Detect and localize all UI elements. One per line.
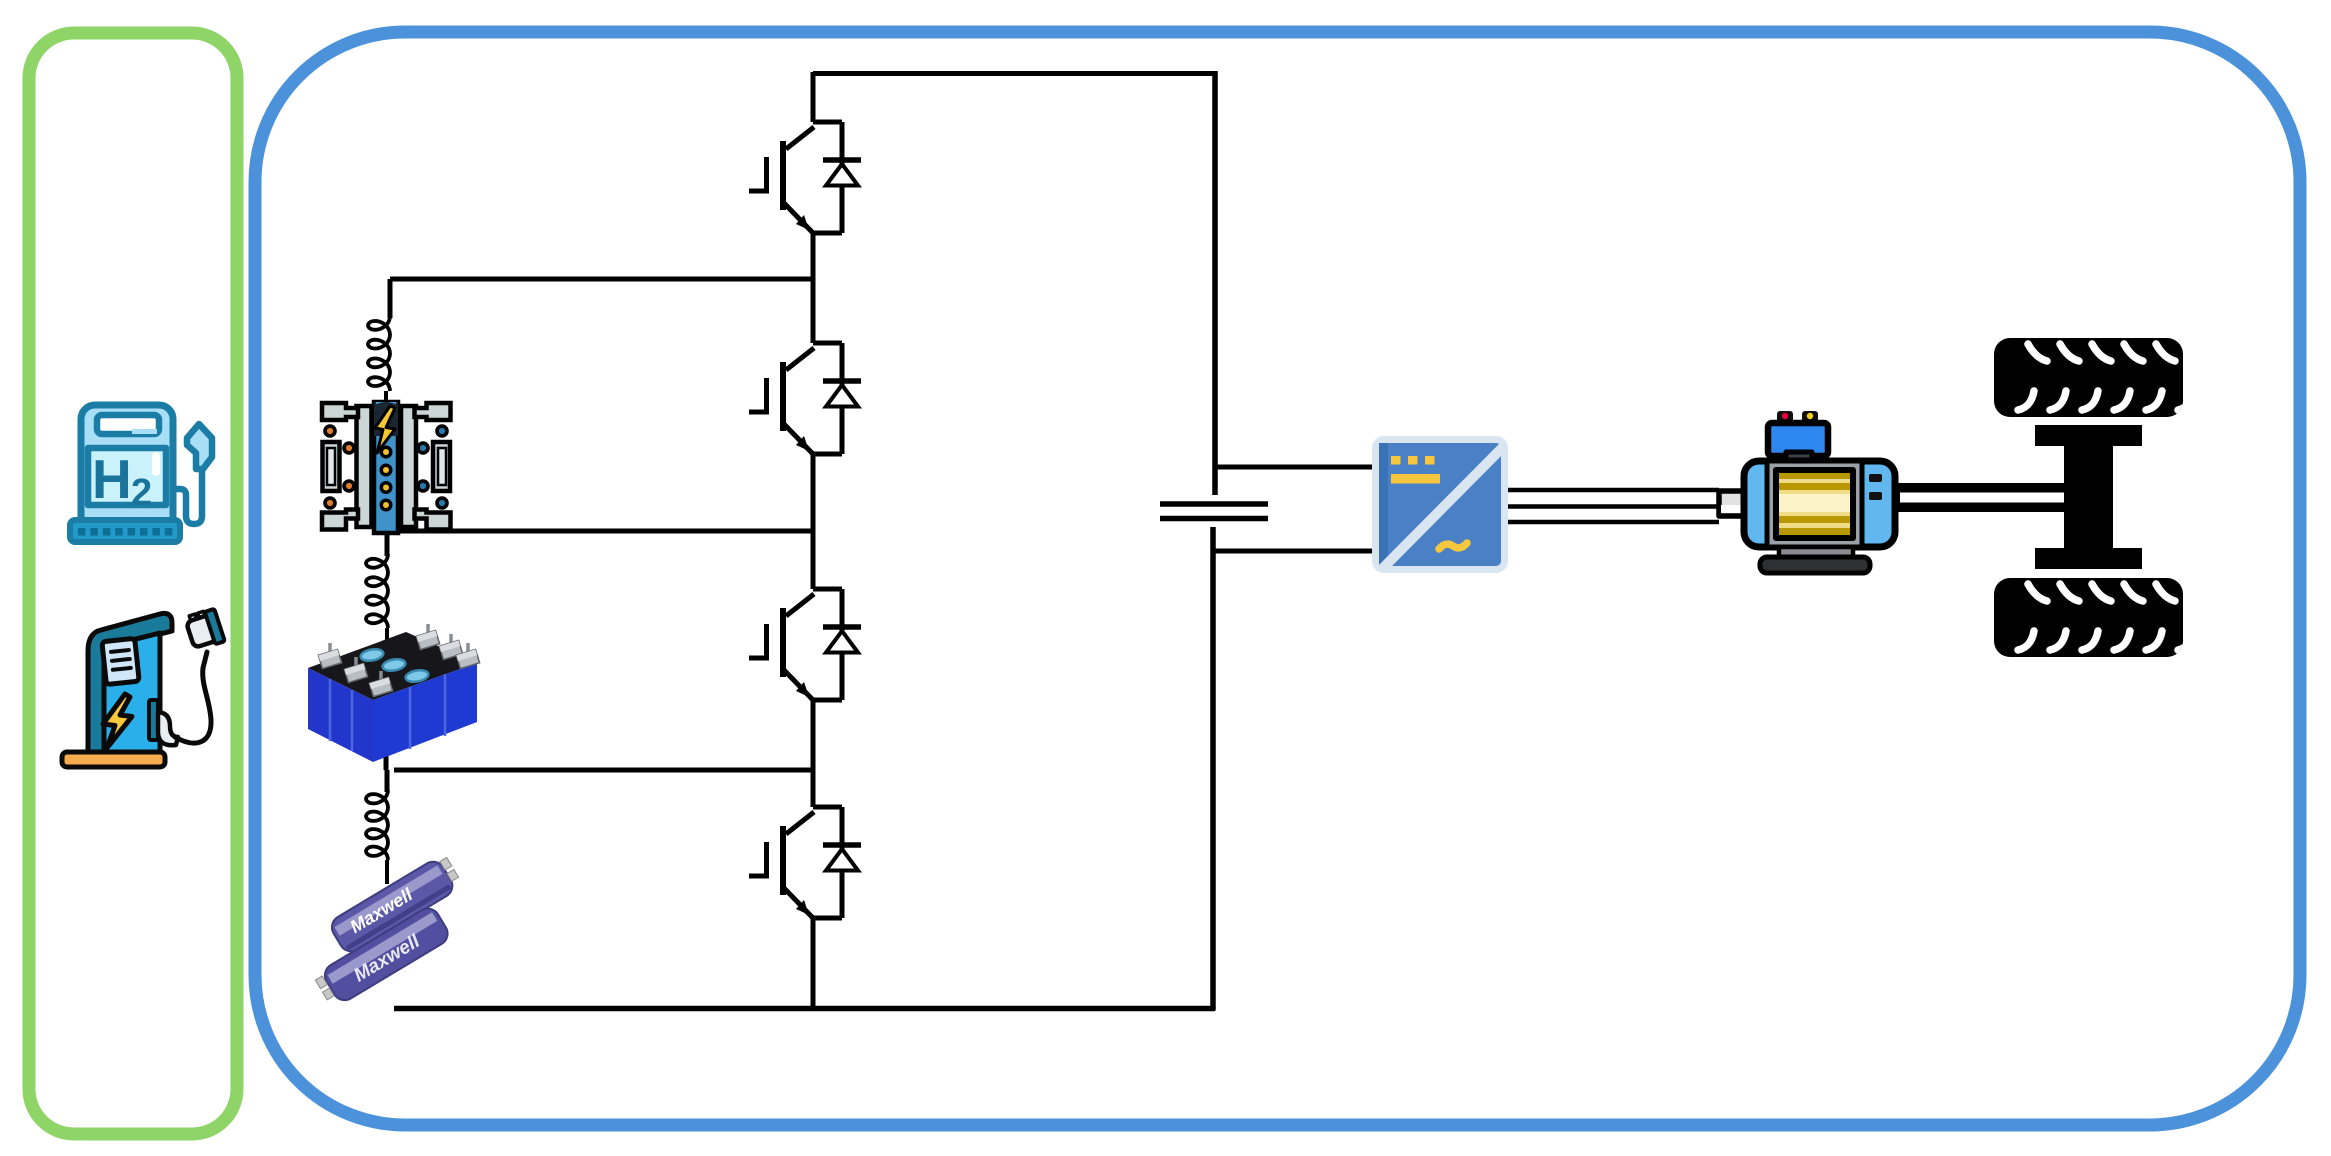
fuel cell stack icon [322, 402, 451, 533]
inductor L1 (fuel cell boost coil) [368, 316, 390, 391]
wire right DC bus upper vertical [1212, 71, 1218, 495]
wire L2 bottom lead to battery [385, 628, 389, 648]
wire L3 bottom lead to supercapacitor [385, 860, 389, 884]
svg-text:H: H [92, 448, 132, 510]
wire chain segment S1 emitter to S2 collector [811, 233, 816, 343]
EV charging station icon [62, 608, 225, 767]
H2 hydrogen fuel pump icon [70, 405, 212, 542]
battery pack icon [308, 624, 480, 762]
wire node C stub down to L3 [385, 770, 390, 792]
wire fuel-cell bottom stub to L2 [385, 531, 390, 556]
inductor L3 (supercapacitor coil) [366, 790, 388, 860]
inductor L2 (battery coil) [366, 554, 388, 628]
wire bottom DC bus [394, 1006, 1215, 1012]
drive shaft motor to axle [1894, 483, 2064, 512]
wire bus to inverter negative [1213, 549, 1372, 554]
three-phase lines inverter to motor [1508, 490, 1719, 522]
axle I-beam [2035, 425, 2142, 446]
wire chain segment top bus to S1 collector [811, 72, 816, 122]
green hydrogen-source frame [29, 33, 237, 1134]
IGBT switch S3 with anti-parallel diode D3 [749, 589, 861, 700]
wire node C horizontal: battery minus / supercap branch to S3/S4 junction [394, 768, 813, 773]
wheel rear tire [1994, 578, 2183, 657]
supercapacitor module (Maxwell ultracapacitors) [313, 853, 464, 1009]
wire top DC bus [813, 71, 1215, 76]
wire node B horizontal: fuel-cell minus / battery branch to S2/S3 junction [388, 529, 813, 534]
wire node A vertical step down to L1 [388, 279, 393, 318]
wire node A horizontal: fuel-cell branch to S1/S2 junction [390, 277, 813, 282]
wire chain segment S4 emitter to bottom bus [811, 918, 816, 1010]
wire battery bottom stub [384, 752, 389, 770]
inverter (DC/AC converter) block [1372, 436, 1508, 573]
capacitor C (DC-link) plate top [1160, 501, 1268, 507]
IGBT switch S1 with anti-parallel diode D1 [749, 122, 861, 233]
electric motor icon [1719, 411, 1895, 573]
wire chain segment S3 emitter to S4 collector [811, 700, 816, 807]
IGBT switch S2 with anti-parallel diode D2 [749, 343, 861, 454]
wire L1 bottom lead to fuel cell [384, 391, 388, 403]
wire right DC bus lower vertical [1210, 527, 1216, 1011]
svg-text:2: 2 [131, 472, 152, 514]
wire bus to inverter positive [1215, 465, 1372, 470]
wheel front tire [1994, 338, 2183, 417]
wire chain segment S2 emitter to S3 collector [811, 454, 816, 589]
capacitor C (DC-link) plate bottom [1160, 516, 1268, 522]
IGBT switch S4 with anti-parallel diode D4 [749, 807, 861, 918]
